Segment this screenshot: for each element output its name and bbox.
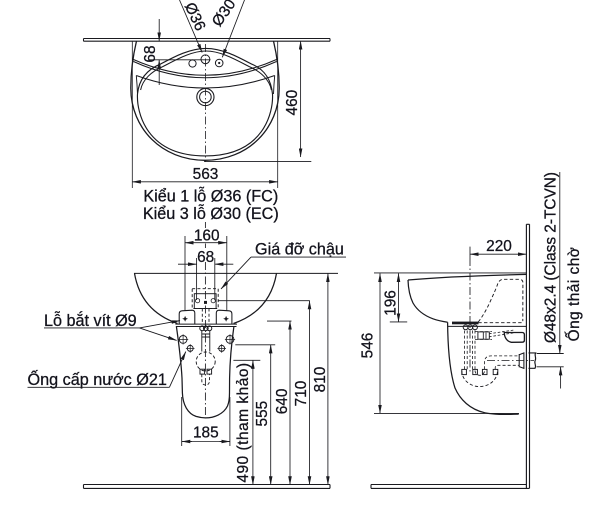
svg-text:Ø48x2.4 (Class 2-TCVN): Ø48x2.4 (Class 2-TCVN)	[543, 172, 560, 343]
svg-text:Kiểu 1 lỗ Ø36 (FC): Kiểu 1 lỗ Ø36 (FC)	[143, 187, 278, 206]
svg-text:490 (tham khảo): 490 (tham khảo)	[235, 362, 252, 482]
svg-text:196: 196	[383, 290, 400, 316]
svg-text:185: 185	[193, 424, 219, 441]
svg-text:Giá đỡ chậu: Giá đỡ chậu	[255, 240, 344, 258]
svg-text:Ống thải chờ: Ống thải chờ	[565, 247, 583, 342]
svg-text:Lỗ bắt vít Ø9: Lỗ bắt vít Ø9	[44, 311, 137, 330]
svg-text:555: 555	[254, 401, 271, 427]
svg-text:Ø36: Ø36	[181, 0, 209, 34]
svg-text:710: 710	[293, 381, 310, 407]
svg-text:640: 640	[274, 389, 291, 415]
svg-text:546: 546	[360, 333, 377, 359]
svg-text:810: 810	[312, 367, 329, 393]
svg-text:563: 563	[193, 166, 219, 183]
svg-text:68: 68	[142, 45, 159, 62]
svg-text:68: 68	[197, 249, 214, 266]
svg-text:460: 460	[284, 90, 301, 116]
svg-text:Kiểu 3 lỗ Ø30 (EC): Kiểu 3 lỗ Ø30 (EC)	[143, 204, 279, 223]
svg-text:Ống cấp nước Ø21: Ống cấp nước Ø21	[28, 369, 167, 389]
svg-text:220: 220	[486, 238, 512, 255]
svg-text:160: 160	[194, 227, 220, 244]
